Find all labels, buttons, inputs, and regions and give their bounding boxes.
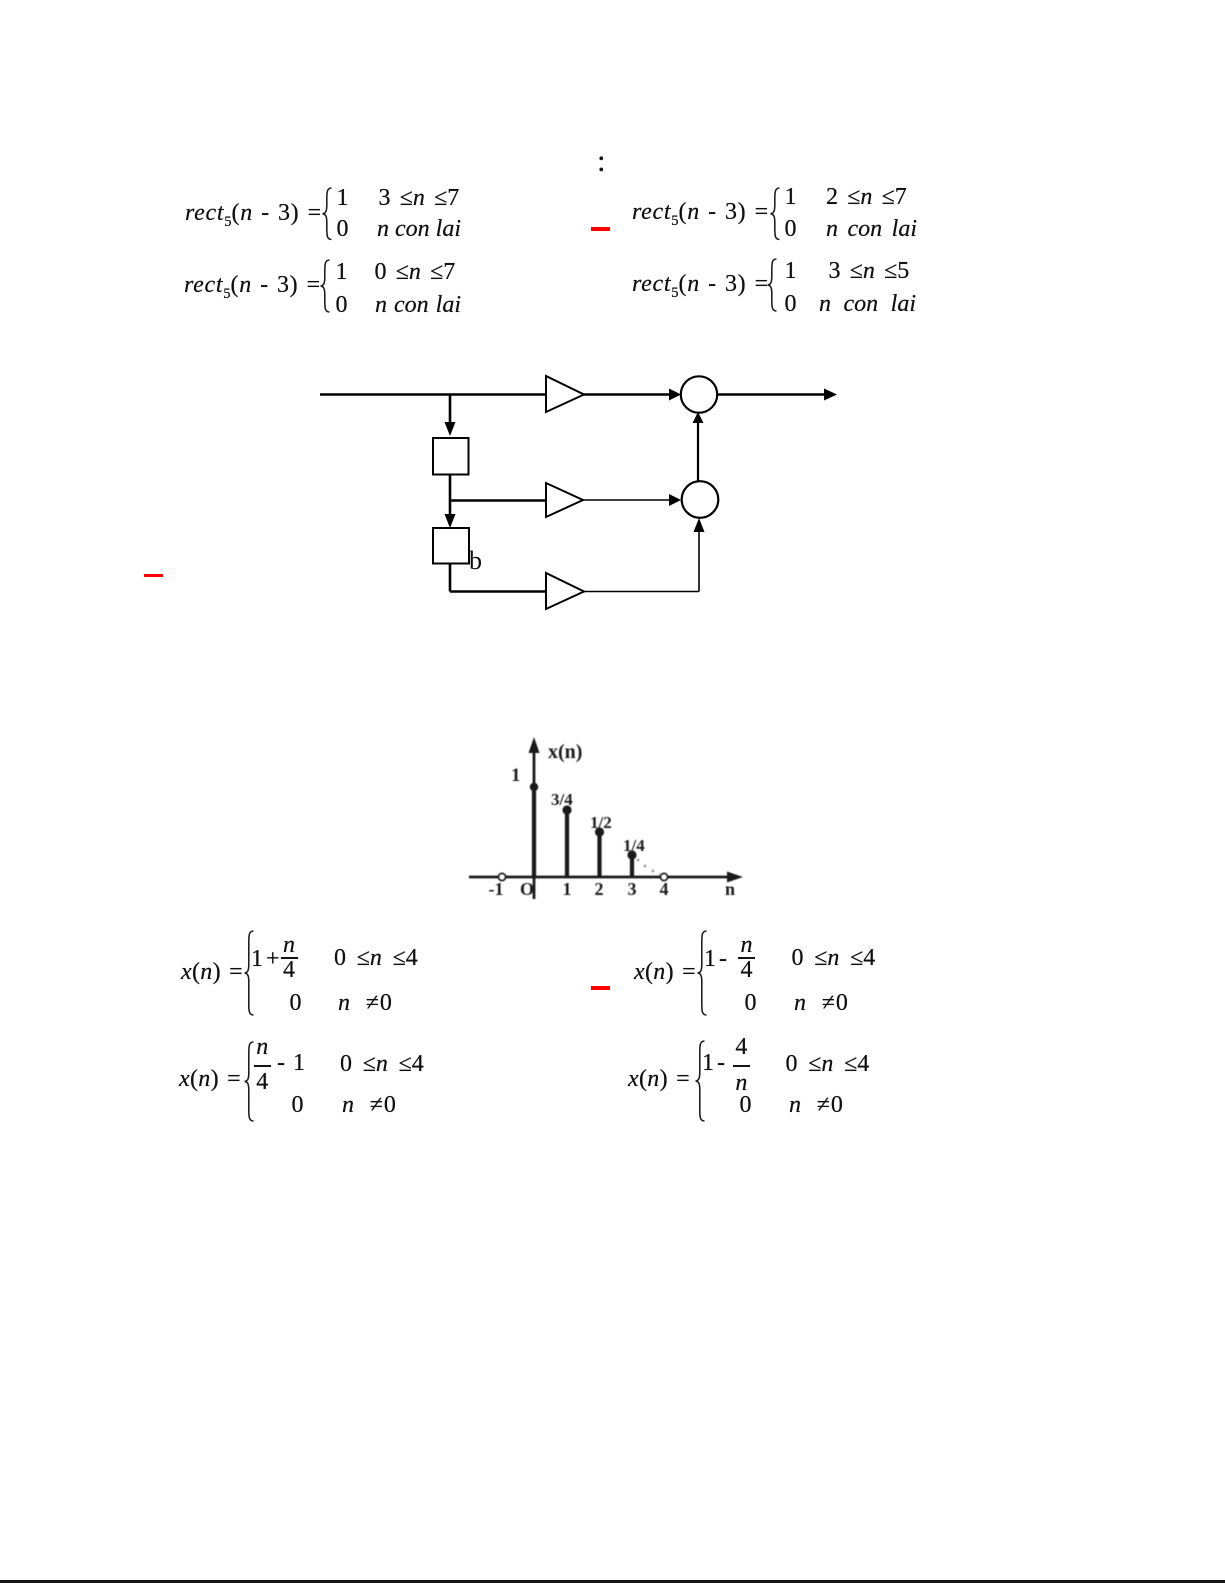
arrowhead bottom into adder2 [694,518,705,532]
wire triangle1 to adder1 [584,393,672,396]
x(n) formula top-left label [181,960,243,984]
x(n) formula bottom-right brace [695,1040,706,1122]
delay box 1 [433,438,469,475]
rect formula bottom-right brace [767,258,778,312]
red dash 2 [144,574,163,577]
rect formula top-left row2 [337,217,349,241]
x(n) formula top-right row1 expression [704,947,727,971]
colon mark [597,145,606,176]
svg-text:1/4: 1/4 [623,836,645,855]
rect formula top-left label [185,201,322,229]
arrowhead output [824,389,837,401]
rect formula bottom-left row2 [336,293,348,317]
y axis arrowhead [529,737,540,753]
wire delay1 to junction [449,475,452,501]
x(n) formula top-left brace [244,930,255,1016]
x(n) formula bottom-right row2 [740,1093,752,1117]
svg-text:3/4: 3/4 [551,790,573,809]
adder circle 1 [681,376,717,412]
wire adder2 up to adder1 [697,420,699,481]
x(n) formula bottom-right row1 expression [702,1051,725,1075]
x(n) formula top-right brace [697,930,708,1016]
open circle n=-1 [498,873,505,880]
svg-text:2: 2 [595,879,604,899]
x(n) formula bottom-left label [179,1067,241,1091]
wire input main line [320,393,546,396]
x(n) formula top-left row1 expression [251,947,280,971]
gain triangle 1 [546,376,584,412]
svg-text:n: n [725,879,735,899]
rect formula top-right row2 [785,217,797,241]
wire corner up to adder2 [698,530,700,592]
svg-text:4: 4 [660,879,669,899]
bottom rule [0,1580,1225,1583]
svg-text:1/2: 1/2 [590,813,612,832]
stem n=0 [532,786,536,877]
wire branch down to delay1 [449,395,452,429]
rect formula bottom-right row1 [785,259,797,283]
arrowhead adder2 to adder1 [693,412,704,423]
svg-text:-1: -1 [489,879,504,899]
rect formula bottom-right row2 [785,292,797,316]
svg-text:x(n): x(n) [548,741,582,763]
rect formula bottom-right label [632,272,769,300]
rect formula top-right row1 [785,185,797,209]
arrowhead into adder2 left [669,494,681,506]
x(n) formula bottom-left brace [244,1041,255,1122]
arrowhead into delay2 [445,514,456,528]
arrowhead into adder1 left [669,389,681,401]
rect formula bottom-left label [184,273,321,301]
rect formula top-right brace [770,187,781,241]
wire bottom to triangle3 [450,590,546,593]
y axis [533,746,536,899]
rect formula top-left brace [322,187,333,241]
wire junction to triangle2 [450,499,546,502]
label b [469,546,482,576]
x(n) formula top-right label [634,960,696,984]
wire adder1 output [717,393,828,396]
wire triangle3 to corner [584,591,699,593]
dot n=1 [562,805,571,814]
wire junction down to delay2 [449,501,452,520]
rect formula top-left row1 [337,186,349,210]
svg-text:1: 1 [563,879,572,899]
wire delay2 to bottom line [449,564,452,592]
x(n) formula top-right row2 [745,991,757,1015]
x(n) formula bottom-left row1 expression [256,1035,268,1059]
stem n=3 [630,854,634,877]
svg-text:O: O [520,879,534,899]
wire triangle2 to adder2 [583,499,672,501]
dot n=2 [595,827,604,836]
adder circle 2 [682,481,719,518]
svg-text:1: 1 [511,765,521,786]
svg-text:3: 3 [628,879,637,899]
x(n) formula bottom-right label [628,1067,690,1091]
open circle n=4 [660,873,667,880]
stem n=1 [565,809,569,877]
x(n) formula top-left row2 [290,991,302,1015]
delay box 2 [433,528,469,564]
x(n) formula bottom-left row2 [292,1093,304,1117]
rect formula top-right label [632,200,769,228]
gain triangle 2 [546,483,583,517]
x axis [469,876,735,879]
stem n=2 [597,831,601,877]
rect formula bottom-left row1 [336,260,348,284]
dotted decay [637,859,662,876]
signal flow diagram [300,360,860,620]
gain triangle 3 [546,573,584,609]
red dash 1 [591,227,610,231]
rect formula bottom-left brace [320,259,331,313]
stem plot x(n) [460,730,760,910]
dot n=0 [530,783,538,791]
arrowhead into delay1 [445,422,456,436]
red dash 3 [591,986,610,990]
dot n=3 [627,850,636,859]
x axis arrowhead [727,872,743,883]
